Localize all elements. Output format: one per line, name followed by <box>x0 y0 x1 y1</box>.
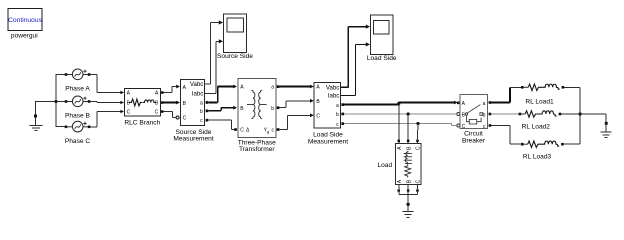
wire: Breaker c to RL Load3 <box>491 126 521 145</box>
svg-text:Phase B: Phase B <box>65 113 91 120</box>
wire: Measurement1 b to Transformer B <box>208 108 234 111</box>
arrows into Measurement1 ports <box>176 85 180 105</box>
arrows into Scope2 <box>366 25 370 47</box>
breaker resistor box icon <box>469 119 476 124</box>
powergui block <box>8 9 43 31</box>
svg-text:b: b <box>271 106 274 112</box>
wire: RLC C to Measurement1 C <box>164 112 176 118</box>
Source Side Measurement block U1 <box>181 79 209 125</box>
RL Load1 (series R-L) <box>521 84 580 90</box>
wire: Measurement2 Iabc to Scope2 <box>340 44 366 95</box>
arrows into RLC ports <box>120 91 124 114</box>
RL Load2 (series R-L) <box>519 111 581 117</box>
svg-text:Continuous: Continuous <box>8 17 42 24</box>
svg-text:a: a <box>336 103 339 109</box>
svg-text:C: C <box>240 128 244 134</box>
resistor R of RL Load3 <box>528 141 540 147</box>
svg-text:g: g <box>267 129 269 134</box>
svg-text:Measurement: Measurement <box>308 138 348 145</box>
wire: tap b down to Load B <box>407 114 409 140</box>
RL Load3 (series R-L) <box>521 141 580 147</box>
resistor icon inside RLC <box>129 99 142 106</box>
svg-text:b: b <box>336 112 339 118</box>
node: RL bus junction <box>579 112 582 115</box>
wire: tap c down to Load C <box>416 124 419 140</box>
ground G3 (RL loads) <box>601 122 612 137</box>
inductor L of RL Load1 <box>540 84 560 89</box>
node: tap a <box>397 102 400 105</box>
svg-text:C: C <box>416 179 422 183</box>
node: tap c <box>416 122 419 125</box>
svg-text:Iabc: Iabc <box>192 91 204 98</box>
svg-text:C: C <box>416 146 422 150</box>
wire: Measurement1 c to Transformer C <box>208 120 234 130</box>
arrows into Measurement2 ports <box>310 85 314 118</box>
AC source Phase A <box>65 69 91 80</box>
arrow into Breaker A <box>454 101 458 105</box>
svg-text:C: C <box>462 124 466 130</box>
wire: ground to neutral junction to Phase B <box>35 101 66 103</box>
svg-text:Iabc: Iabc <box>328 93 340 100</box>
wire: Breaker b to RL Load2 <box>491 113 518 115</box>
Three-Phase Transformer block T1 <box>238 79 279 138</box>
RLC Branch block <box>124 88 163 116</box>
wire: Breaker a to RL Load1 <box>491 87 521 102</box>
arrows into Transformer ports <box>233 85 237 110</box>
inductor icon inside Load <box>405 151 408 164</box>
svg-text:a: a <box>271 85 274 91</box>
wire: RLC B to Measurement1 B <box>164 102 177 104</box>
winding 1 icon <box>251 90 254 118</box>
AC source Phase B <box>65 96 91 107</box>
wire: Measurement1 a to Transformer A <box>208 87 234 103</box>
resistor R of RL Load2 <box>525 111 537 117</box>
wire: RLC A to Measurement1 A <box>164 87 177 93</box>
scope Source Side <box>223 14 246 53</box>
wire: Measurement1 Iabc to Scope1 <box>205 41 220 93</box>
wires: Load bottom ports to ground <box>399 185 418 203</box>
svg-text:RLC Branch: RLC Branch <box>124 120 160 127</box>
breaker switch icon <box>465 113 467 115</box>
svg-text:RL Load1: RL Load1 <box>525 99 554 106</box>
svg-text:a: a <box>483 101 486 107</box>
wire: tap a down to Load A <box>398 105 400 140</box>
Circuit Breaker block CB1 <box>457 94 491 130</box>
wire: RL loads common bus <box>579 87 581 144</box>
svg-text:C: C <box>155 110 159 116</box>
svg-text:Load Side: Load Side <box>367 55 397 62</box>
svg-text:Phase C: Phase C <box>65 138 91 145</box>
wire: bus a (Measurement2 a to Breaker A) <box>344 103 455 105</box>
wire: Transformer c to Measurement2 C <box>279 115 311 129</box>
Load block (three-phase RL load) <box>396 140 422 185</box>
ground G2 (load neutral) <box>403 203 414 218</box>
svg-text:Source Side: Source Side <box>217 53 253 60</box>
svg-text:a: a <box>200 100 203 106</box>
svg-text:Transformer: Transformer <box>239 146 275 153</box>
svg-text:b: b <box>200 109 203 115</box>
svg-text:Phase A: Phase A <box>65 86 90 93</box>
wire: Phase C to RLC C <box>90 112 121 127</box>
svg-text:Measurement: Measurement <box>173 136 213 143</box>
scope Load Side <box>370 15 393 55</box>
svg-text:Vabc: Vabc <box>190 81 203 88</box>
inductor L of RL Load3 <box>539 141 559 146</box>
svg-text:C: C <box>127 110 131 116</box>
svg-text:RL Load3: RL Load3 <box>523 154 552 161</box>
node: tap b <box>407 112 410 115</box>
wire: Phase A to RLC A <box>90 75 121 93</box>
resistor icon inside Load <box>405 164 411 177</box>
wire: Phase B to RLC B <box>90 102 121 103</box>
wire: RL bus to ground G3 <box>580 114 606 122</box>
svg-text:C: C <box>316 113 320 119</box>
svg-text:Load: Load <box>377 162 392 169</box>
wire: bus c (Measurement2 c to Breaker C) <box>344 124 456 126</box>
wire: neutral vertical bus <box>56 74 66 127</box>
node: neutral junction <box>54 100 57 103</box>
svg-text:powergui: powergui <box>11 32 38 39</box>
wire: bus b (Measurement2 b to Breaker B) <box>344 113 456 115</box>
inductor L of RL Load2 <box>537 111 557 116</box>
wire: Measurement1 Vabc to Scope1 <box>205 23 220 85</box>
svg-text:C: C <box>183 116 187 122</box>
wire: Measurement2 Vabc to Scope2 <box>340 27 366 88</box>
ground G1 (source neutral) <box>30 101 43 131</box>
svg-text:b: b <box>483 112 486 118</box>
winding 2 icon <box>259 90 262 118</box>
svg-text:RL Load2: RL Load2 <box>522 124 551 131</box>
inductor icon inside RLC <box>143 100 156 103</box>
Load Side Measurement block U2 <box>314 82 344 128</box>
svg-text:Breaker: Breaker <box>462 137 486 144</box>
wire: Transformer b to Measurement2 B <box>279 101 311 108</box>
resistor R of RL Load1 <box>528 84 540 90</box>
arrows into Scope1 <box>219 20 223 43</box>
svg-text:Vabc: Vabc <box>326 85 339 92</box>
AC source Phase C <box>65 121 91 132</box>
wire: Transformer a to Measurement2 A <box>279 86 311 88</box>
